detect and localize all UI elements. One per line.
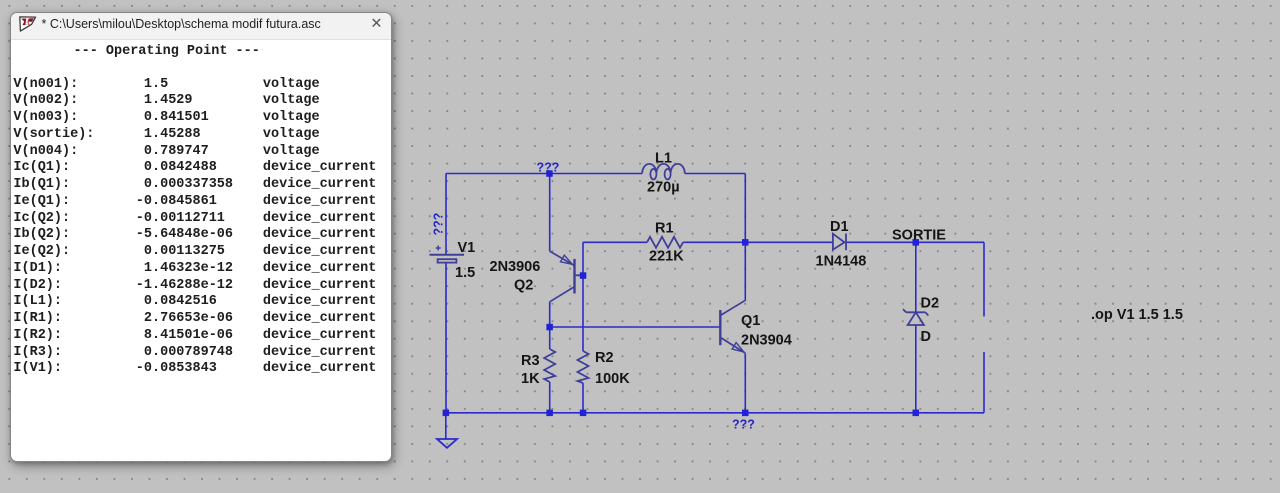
- junction R3 bottom: [546, 410, 553, 417]
- wire D1 anode lead: [745, 241, 832, 243]
- svg-text:???: ???: [732, 418, 755, 432]
- resistor R3: [544, 349, 555, 382]
- svg-text:SORTIE: SORTIE: [892, 228, 946, 244]
- junction R2 bottom: [580, 410, 587, 417]
- operating point window: [10, 12, 392, 462]
- wire ground stem: [445, 413, 447, 439]
- resistor R2: [578, 351, 589, 383]
- svg-text:1N4148: 1N4148: [816, 254, 867, 270]
- svg-text:.op V1 1.5 1.5: .op V1 1.5 1.5: [1091, 307, 1183, 323]
- junction R1/D1/Q1 collector: [742, 239, 749, 246]
- wire Q2 collector vertical: [549, 302, 551, 327]
- wire right edge upper segment: [983, 242, 985, 316]
- wire top rail right of L1: [685, 173, 746, 175]
- svg-text:R2: R2: [595, 350, 614, 366]
- svg-text:Q1: Q1: [741, 313, 760, 329]
- wire D1 cathode to SORTIE: [846, 241, 916, 243]
- transistor Q2 (2N3906 PNP, mirrored): [550, 251, 583, 302]
- svg-text:1K: 1K: [521, 371, 540, 387]
- zener diode D2: [903, 309, 928, 325]
- svg-text:1.5: 1.5: [455, 265, 475, 281]
- wire R3 bottom lead: [549, 382, 551, 413]
- inductor L1: [642, 164, 685, 180]
- wire D2 cathode lead: [915, 242, 917, 311]
- wire base node vertical (R1 left / Q2 base / R2 top): [582, 242, 584, 351]
- wire right edge lower segment: [983, 352, 985, 413]
- wire bottom rail: [446, 412, 984, 414]
- junction Q2 base: [580, 272, 587, 279]
- svg-text:R1: R1: [655, 221, 674, 237]
- wire right drop from L1 to node: [744, 174, 746, 243]
- svg-text:221K: 221K: [649, 249, 684, 265]
- svg-text:???: ???: [432, 213, 446, 236]
- transistor Q1 (2N3904 NPN): [720, 300, 745, 353]
- wire R1 left lead: [583, 241, 647, 243]
- diode D1: [833, 234, 846, 251]
- junction Q1 emitter bottom: [742, 410, 749, 417]
- ground: [437, 439, 457, 448]
- wire left rail below battery: [445, 263, 447, 413]
- wire R2 bottom lead: [582, 383, 584, 413]
- svg-text:???: ???: [537, 161, 560, 175]
- wire Q1 emitter vertical: [744, 353, 746, 413]
- junction battery bottom: [443, 410, 450, 417]
- wire left rail above battery: [445, 174, 447, 255]
- junction mid rail left: [546, 324, 553, 331]
- svg-text:V1: V1: [458, 240, 476, 256]
- resistor R1: [647, 237, 683, 248]
- wire SORTIE to right edge: [916, 241, 984, 243]
- svg-text:2N3904: 2N3904: [741, 333, 792, 349]
- LTspice app icon: [19, 16, 37, 35]
- svg-text:D: D: [921, 329, 931, 345]
- wire mid rail to Q1 base: [550, 326, 721, 328]
- junction top ??? node: [546, 170, 553, 177]
- junction SORTIE: [913, 239, 920, 246]
- svg-text:R3: R3: [521, 353, 540, 369]
- wire Q2 emitter vertical: [549, 174, 551, 252]
- junction D2 bottom: [913, 410, 920, 417]
- svg-text:270µ: 270µ: [647, 180, 680, 196]
- wire Q1 collector vertical: [744, 242, 746, 300]
- wire D2 anode lead: [915, 325, 917, 413]
- svg-text:2N3906: 2N3906: [490, 259, 541, 275]
- battery V1: [430, 246, 465, 263]
- svg-text:D2: D2: [921, 296, 940, 312]
- wire R1 right lead: [683, 241, 745, 243]
- wire R3 top lead: [549, 327, 551, 349]
- svg-text:100K: 100K: [595, 371, 630, 387]
- svg-text:Q2: Q2: [514, 278, 533, 294]
- wire top rail left of L1: [446, 173, 642, 175]
- svg-text:D1: D1: [830, 219, 849, 235]
- svg-text:L1: L1: [655, 151, 672, 167]
